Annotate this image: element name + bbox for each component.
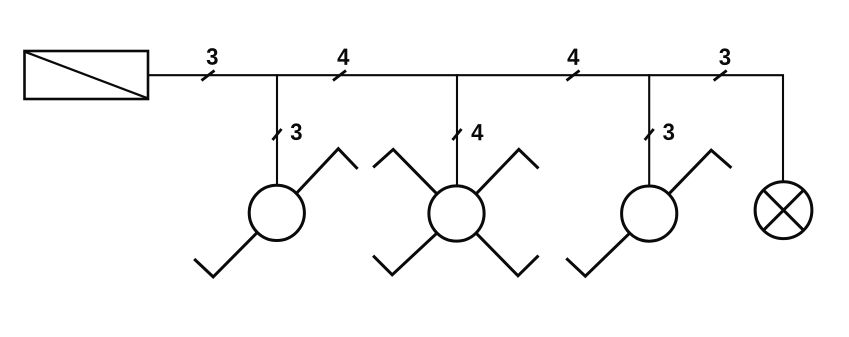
conductor tick (3 wires) on feeder segment 1 — [202, 71, 215, 81]
label: 4 (conductors) — [471, 124, 483, 140]
wire: J3 to top-right corner and drop to lamp E1 — [648, 75, 783, 182]
wire: drop from J3 to switch S3 — [648, 75, 650, 186]
label: 3 (conductors) — [207, 48, 218, 65]
conductor tick (3 wires) on S3 drop — [645, 129, 654, 140]
switch S3 (two-way switch) — [566, 150, 731, 276]
conductor tick (4 wires) on feeder segment 3 — [567, 71, 580, 81]
distribution board DB1 (rectangle with diagonal) — [25, 51, 149, 99]
lamp E1 (circle with cross) — [755, 182, 812, 239]
label: 4 (conductors) — [567, 49, 579, 65]
label: 3 (conductors) — [291, 123, 302, 140]
wire: drop from J2 to switch S2 — [456, 75, 458, 186]
label: 3 (conductors) — [719, 48, 730, 65]
conductor tick (3 wires) on feeder segment 4 — [714, 71, 727, 81]
label: 3 (conductors) — [663, 123, 674, 140]
conductor tick (4 wires) on S2 drop — [453, 129, 462, 140]
wire: drop from J1 to switch S1 — [276, 75, 278, 185]
switch S2 (intermediate switch) — [373, 149, 538, 275]
wire: J2 to J3 — [456, 74, 650, 76]
wire: J1 to J2 — [276, 74, 458, 76]
wire: DB1 to junction J1 — [148, 74, 278, 76]
conductor tick (3 wires) on S1 drop — [273, 129, 282, 140]
switch S1 (two-way switch) — [194, 149, 357, 277]
conductor tick (4 wires) on feeder segment 2 — [333, 71, 346, 81]
label: 4 (conductors) — [337, 49, 349, 65]
